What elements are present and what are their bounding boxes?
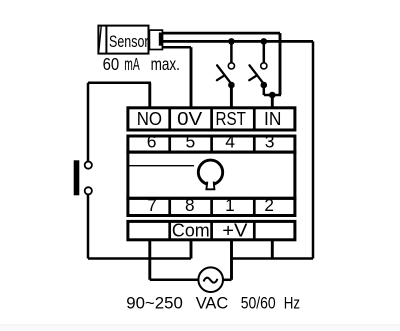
svg-text:8: 8 <box>185 195 195 215</box>
svg-text:4: 4 <box>225 132 235 152</box>
svg-text:3: 3 <box>265 132 275 152</box>
svg-text:max.: max. <box>151 54 180 74</box>
svg-text:+V: +V <box>222 220 247 240</box>
svg-text:Hz: Hz <box>284 294 300 312</box>
svg-text:RST: RST <box>216 108 246 129</box>
svg-text:6: 6 <box>147 132 157 152</box>
svg-text:Sensor: Sensor <box>109 32 149 51</box>
svg-text:2: 2 <box>264 195 274 215</box>
svg-text:90~250: 90~250 <box>126 294 183 312</box>
svg-text:mA: mA <box>124 54 139 74</box>
svg-text:0V: 0V <box>177 108 203 129</box>
svg-text:7: 7 <box>147 195 157 215</box>
svg-text:60: 60 <box>103 54 120 74</box>
svg-text:Com: Com <box>172 220 210 240</box>
svg-text:5: 5 <box>186 132 196 152</box>
svg-text:1: 1 <box>225 195 235 215</box>
svg-text:IN: IN <box>264 108 281 129</box>
svg-text:NO: NO <box>137 108 162 129</box>
svg-text:VAC: VAC <box>196 294 229 312</box>
svg-text:50/60: 50/60 <box>241 294 276 312</box>
